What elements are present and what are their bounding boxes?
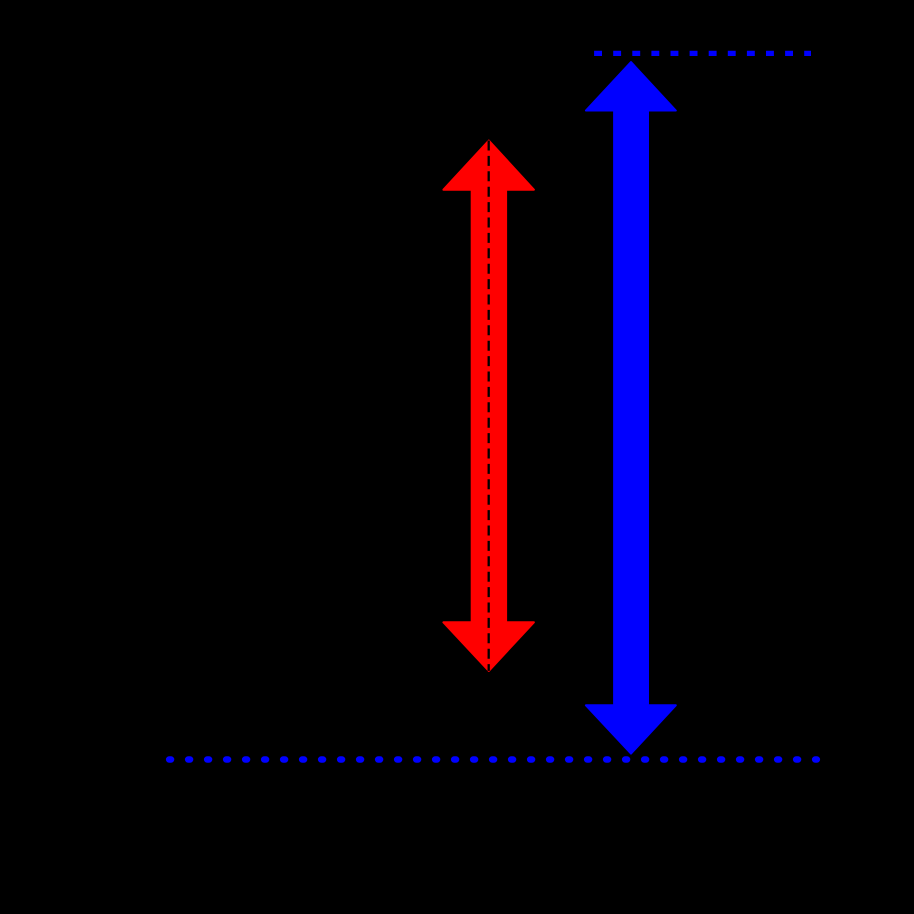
blue double-headed arrow <box>586 62 676 754</box>
red double-headed arrow <box>443 141 534 671</box>
black dashed centerline over red arrow <box>488 141 490 671</box>
upper energy level (blue dashed line) <box>594 51 811 56</box>
lower energy level (blue dotted line) <box>169 756 817 762</box>
